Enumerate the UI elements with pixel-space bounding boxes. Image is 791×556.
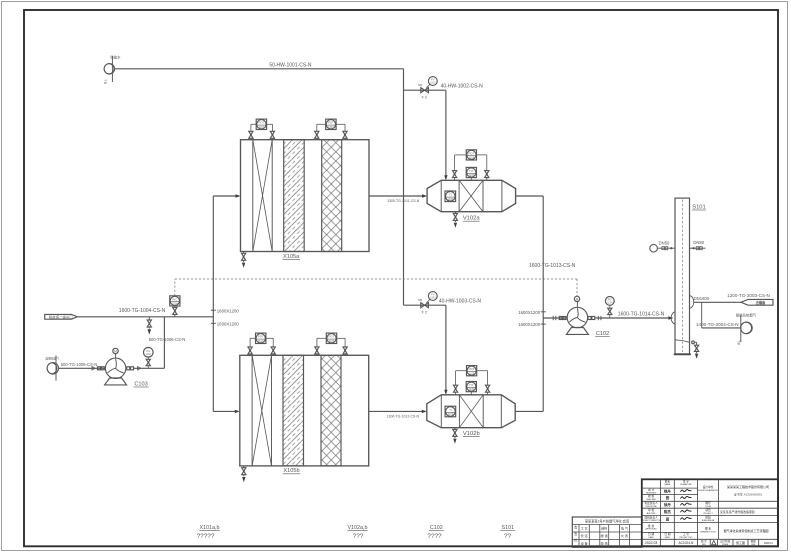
svg-text:40-HW-1003-CS-N: 40-HW-1003-CS-N (439, 299, 482, 305)
svg-text:1102: 1102 (328, 125, 334, 129)
pipe 1200-TG-2003-CS-N (694, 293, 770, 303)
duct size tick lower right (518, 322, 545, 327)
svg-text:1106: 1106 (448, 412, 454, 416)
pipe 500-TG-1005-CS-N (59, 362, 106, 368)
wire 40-HW-1002 drop to V102a (444, 90, 447, 180)
temperature instrument V102a top (466, 167, 476, 180)
svg-text:图幅: 图幅 (751, 539, 757, 543)
svg-text:1106: 1106 (469, 387, 475, 391)
svg-text:除盐水: 除盐水 (110, 55, 121, 60)
svg-text:FV: FV (431, 78, 435, 82)
svg-text:AC1024-N: AC1024-N (678, 541, 694, 545)
svg-text:DATE: DATE (649, 536, 655, 539)
svg-text:PDT: PDT (468, 151, 474, 155)
pipe 1300-TG-1012-CS-N (369, 410, 427, 419)
svg-text:设 备: 设 备 (581, 541, 588, 546)
svg-text:设 计: 设 计 (648, 488, 654, 492)
discharge flexible joint and check valve (127, 367, 165, 370)
svg-text:签 字: 签 字 (683, 479, 689, 483)
duct size tick 1600X1200 upper (211, 308, 240, 313)
control valve FV-1002 (418, 77, 437, 100)
svg-text:B.L: B.L (104, 79, 108, 84)
svg-text:1101: 1101 (259, 125, 265, 129)
svg-text:PDT: PDT (329, 335, 335, 339)
svg-text:????: ???? (427, 533, 442, 540)
S101 bottom drain (675, 340, 699, 359)
equipment tag C102 (427, 525, 443, 540)
svg-text:田: 田 (666, 516, 670, 521)
inlet flag absorber outlet (45, 314, 78, 319)
svg-text:1105: 1105 (469, 156, 475, 160)
svg-text:徐丹: 徐丹 (663, 489, 671, 494)
svg-text:CODE: CODE (705, 506, 711, 508)
svg-text:NAME: NAME (665, 483, 671, 486)
temperature instrument V102b top (466, 382, 476, 395)
svg-text:1103: 1103 (258, 339, 264, 343)
svg-text:结构: 结构 (601, 526, 607, 531)
fan C103 (105, 348, 149, 387)
svg-text:V102b: V102b (463, 431, 480, 437)
svg-text:校 核: 校 核 (648, 494, 654, 498)
equipment tag S101 (500, 525, 515, 540)
pipe 40-HW-1002-CS-N (404, 84, 484, 91)
DN80 connection (690, 240, 706, 250)
V102a bottom drain (453, 212, 457, 228)
V102b bottom drain (453, 428, 457, 444)
svg-text:PG: PG (608, 298, 612, 302)
dP instrument X105b cell 1 (248, 333, 275, 355)
pipe 1300-TG-1011-CS-N (369, 194, 427, 203)
signal line to C102 (dashed) (175, 279, 577, 296)
X105b dust drain (242, 466, 246, 482)
svg-text:1105: 1105 (448, 197, 454, 201)
svg-text:DISCIPLINE: DISCIPLINE (646, 506, 658, 508)
svg-text:?????: ????? (197, 533, 215, 540)
svg-text:DN50: DN50 (659, 241, 670, 246)
svg-text:PROJECT DIRECTOR: PROJECT DIRECTOR (641, 520, 662, 522)
svg-text:1200-TG-2003-CS-N: 1200-TG-2003-CS-N (727, 293, 770, 298)
stack S101 (674, 198, 706, 354)
svg-text:F C: F C (422, 311, 428, 315)
battery-limit connector water inlet (104, 55, 121, 84)
svg-text:日 期: 日 期 (648, 532, 654, 536)
svg-text:NB: NB (418, 298, 422, 302)
suction line to C102 (543, 316, 567, 320)
svg-text:批 准: 批 准 (648, 524, 654, 528)
svg-text:建 筑: 建 筑 (601, 541, 608, 546)
svg-text:TIT: TIT (469, 383, 474, 387)
svg-text:DRAWING TITLE: DRAWING TITLE (700, 531, 716, 534)
svg-text:田: 田 (666, 495, 670, 500)
svg-text:SIGNATURE: SIGNATURE (680, 483, 692, 486)
dP instrument V102a (453, 150, 489, 181)
svg-text:C102: C102 (430, 525, 443, 531)
equipment tag X101a,b (197, 525, 220, 540)
duct riser 1600X1200 (212, 196, 214, 411)
duct size tick upper right (518, 310, 545, 315)
svg-text:自脱硫烟气: 自脱硫烟气 (45, 356, 59, 360)
svg-text:施工图: 施工图 (736, 540, 745, 545)
svg-text:审 核: 审 核 (648, 508, 654, 512)
svg-text:烟气净化系统带控制点工艺流程图: 烟气净化系统带控制点工艺流程图 (724, 528, 769, 533)
svg-text:姓名: 姓名 (665, 479, 671, 483)
svg-text:DESIGNED: DESIGNED (646, 492, 657, 494)
battery-limit connector flue gas inlet (45, 356, 59, 381)
svg-text:1600X1200: 1600X1200 (518, 310, 541, 315)
svg-text:TIT: TIT (469, 169, 474, 173)
outlet flag to chimney (741, 299, 773, 305)
svg-text:DATE: DATE (665, 536, 671, 539)
wire riser 50-HW down (403, 69, 405, 305)
dP instrument X105a cell 1 (249, 119, 275, 140)
svg-text:S101: S101 (502, 525, 515, 531)
svg-text:管 道: 管 道 (581, 533, 588, 538)
duct V102b outlet (515, 318, 543, 411)
svg-text:V102a: V102a (463, 216, 481, 222)
svg-text:陈杰: 陈杰 (664, 509, 671, 514)
svg-text:CHECKED: CHECKED (646, 499, 656, 501)
svg-text:PDT: PDT (328, 121, 334, 125)
duct V102a outlet (516, 196, 544, 318)
svg-text:50-HW-1001-CS-N: 50-HW-1001-CS-N (269, 63, 312, 69)
svg-text:1600-TG-1013-CS-N: 1600-TG-1013-CS-N (529, 263, 576, 269)
svg-text:F C: F C (422, 96, 428, 100)
svg-text:PROJECT NO: PROJECT NO (679, 537, 692, 539)
svg-text:设计单位: 设计单位 (703, 485, 714, 489)
fan C102 (566, 296, 609, 337)
svg-text:PDT: PDT (258, 121, 264, 125)
wire 40-HW-1003 drop to V102b (444, 305, 447, 395)
pressure gauge PG-1006 (144, 348, 154, 369)
svg-text:图号: 图号 (705, 501, 711, 505)
svg-text:DN80: DN80 (693, 240, 704, 245)
svg-text:阶段: 阶段 (705, 515, 711, 519)
svg-text:AUDITED: AUDITED (647, 512, 656, 515)
svg-text:X105a: X105a (283, 254, 300, 260)
svg-text:1600X1200: 1600X1200 (518, 322, 541, 327)
svg-text:PDT: PDT (258, 335, 264, 339)
svg-text:1105: 1105 (469, 173, 475, 177)
pipe 50-HW-1001-CS-N (115, 63, 404, 69)
pipe 1400-TG-2004-CS-N (696, 302, 741, 328)
duct to X105b inlet (213, 410, 240, 413)
svg-text:工 艺: 工 艺 (581, 526, 588, 531)
svg-text:日 期: 日 期 (664, 532, 670, 536)
duct size tick 1600X1200 lower (211, 321, 240, 326)
DN50 connection (650, 241, 675, 252)
pipe 40-HW-1003-CS-N (404, 299, 482, 306)
duct to X105a inlet (213, 194, 240, 197)
svg-text:B.L: B.L (737, 340, 741, 345)
svg-text:PDT: PDT (469, 367, 475, 371)
svg-text:项目: 项目 (705, 508, 711, 512)
svg-text:专业负责人: 专业负责人 (644, 501, 658, 505)
instrument V102a internal (445, 191, 456, 202)
adsorber vessel V102b (427, 395, 515, 437)
svg-text:暖 通: 暖 通 (601, 533, 608, 538)
control valve FV-1003 (418, 292, 437, 315)
svg-text:设计阶段: 设计阶段 (720, 539, 731, 543)
svg-text:徐丹: 徐丹 (663, 502, 671, 507)
discipline sign-off table (572, 517, 642, 547)
svg-text:???: ??? (353, 533, 364, 540)
dP instrument V102b (454, 366, 490, 395)
svg-text:PG: PG (146, 349, 150, 353)
svg-text:仪 表: 仪 表 (621, 533, 628, 538)
svg-text:吸收塔二级出口: 吸收塔二级出口 (49, 314, 73, 319)
svg-text:M: M (114, 349, 117, 353)
battery-limit connector to desulfurization (736, 313, 757, 345)
svg-text:版 次: 版 次 (701, 539, 707, 543)
svg-text:FV: FV (431, 293, 435, 297)
svg-text:1106: 1106 (469, 371, 475, 375)
svg-text:某某某某工程技术股份有限公司: 某某某某工程技术股份有限公司 (727, 484, 769, 489)
pipe 1600-TG-1004-CS-N (77, 308, 213, 317)
pressure gauge PG-1014 (605, 297, 614, 319)
svg-text:??: ?? (504, 533, 512, 540)
svg-text:图 名: 图 名 (705, 527, 711, 531)
svg-text:A0X-N: A0X-N (764, 541, 773, 545)
svg-text:电 气: 电 气 (621, 526, 628, 531)
svg-text:TI: TI (449, 408, 452, 412)
svg-text:某某某某产线升级改造项目: 某某某某产线升级改造项目 (720, 509, 755, 514)
svg-text:V102a,b: V102a,b (347, 525, 367, 531)
X105a dust drain (242, 252, 246, 268)
svg-text:某某某某2号产线烟气净化-会签: 某某某某2号产线烟气净化-会签 (585, 518, 630, 523)
svg-text:NB: NB (418, 83, 422, 87)
instrument V102b internal (445, 406, 456, 417)
svg-text:证书号 A2326060991: 证书号 A2326060991 (734, 491, 763, 496)
svg-text:C102: C102 (596, 331, 609, 337)
svg-text:1014: 1014 (607, 303, 613, 305)
svg-text:X105b: X105b (283, 468, 299, 474)
svg-text:1300-TG-1012-CS-N: 1300-TG-1012-CS-N (387, 415, 420, 419)
svg-text:500-TG-1006-CS-N: 500-TG-1006-CS-N (149, 337, 186, 342)
bag filter X105b (240, 355, 369, 474)
svg-text:DN1600: DN1600 (694, 296, 710, 301)
svg-text:S101: S101 (692, 204, 706, 210)
svg-text:脱硫系统烟气: 脱硫系统烟气 (736, 313, 757, 318)
svg-text:去烟囱: 去烟囱 (756, 300, 766, 305)
dP instrument X105b cell 2 (315, 333, 347, 355)
svg-text:TI: TI (449, 193, 452, 197)
svg-text:1600-TG-1004-CS-N: 1600-TG-1004-CS-N (119, 308, 166, 314)
svg-text:1003: 1003 (430, 298, 436, 300)
bag filter X105a (241, 140, 370, 260)
svg-text:40-HW-1002-CS-N: 40-HW-1002-CS-N (441, 84, 484, 90)
pipe label 1600-TG-1013-CS-N (529, 263, 576, 269)
DN1600 outlet nozzle (690, 296, 710, 309)
svg-text:1104: 1104 (329, 339, 335, 343)
suction flexible joint (92, 367, 104, 370)
svg-text:1004: 1004 (172, 302, 178, 306)
svg-text:1006: 1006 (146, 354, 152, 356)
pressure instrument on main line (170, 296, 180, 317)
equipment tag V102a,b (347, 525, 367, 540)
svg-text:项目负责人: 项目负责人 (644, 515, 658, 519)
svg-text:SIZE: SIZE (751, 544, 756, 546)
drain branch with root valve (147, 317, 151, 335)
svg-text:1300-TG-1011-CS-N: 1300-TG-1011-CS-N (387, 199, 420, 203)
svg-text:APPROVED: APPROVED (646, 528, 658, 531)
title block (641, 479, 778, 546)
inlet nozzle flange on S101 (671, 312, 675, 324)
pipe 1600-TG-1014-CS-N (588, 311, 673, 320)
svg-text:1600X1200: 1600X1200 (217, 308, 240, 313)
pipe 500-TG-1006-CS-N riser (149, 317, 186, 369)
svg-text:STAGE: STAGE (722, 543, 729, 546)
svg-text:DESIGN ORGANIZATION: DESIGN ORGANIZATION (698, 489, 718, 492)
svg-text:M: M (576, 297, 579, 301)
svg-text:PROJECT: PROJECT (703, 513, 713, 515)
svg-text:1002: 1002 (430, 83, 436, 85)
svg-text:2022.03: 2022.03 (645, 541, 657, 545)
svg-text:X101a,b: X101a,b (199, 525, 219, 531)
dP instrument X105a cell 2 (315, 119, 347, 140)
svg-text:PIC: PIC (172, 297, 178, 301)
svg-text:1600X1200: 1600X1200 (217, 321, 240, 326)
svg-text:1600-TG-1014-CS-N: 1600-TG-1014-CS-N (618, 311, 665, 317)
svg-text:工 号: 工 号 (683, 532, 689, 536)
svg-text:1400-TG-2004-CS-N: 1400-TG-2004-CS-N (696, 322, 739, 327)
svg-text:SUB-DESIGN: SUB-DESIGN (702, 520, 715, 522)
svg-text:C103: C103 (134, 381, 147, 387)
adsorber vessel V102a (427, 180, 515, 221)
